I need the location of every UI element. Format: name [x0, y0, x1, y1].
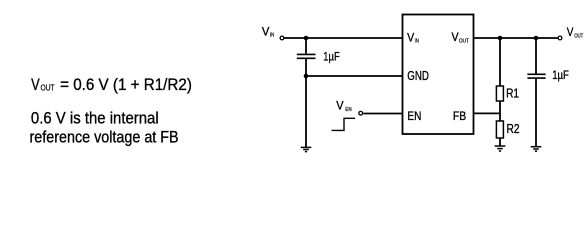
svg-text:V: V	[262, 25, 270, 38]
svg-text:OUT: OUT	[574, 33, 583, 39]
node VIN input terminal circle	[280, 36, 284, 40]
svg-text:IN: IN	[415, 38, 419, 44]
node VIN input terminal label	[262, 25, 274, 38]
wire C2 top lead	[535, 38, 537, 74]
resistor R1 body	[496, 86, 503, 101]
svg-text:0.6 V is the internal: 0.6 V is the internal	[31, 110, 159, 128]
wire GND pin to junction	[306, 75, 403, 77]
pin label VIN	[407, 31, 419, 45]
svg-text:1µF: 1µF	[323, 49, 340, 63]
wire C1 top lead	[305, 38, 307, 54]
capacitor C2 1uF plates	[527, 74, 545, 78]
ground symbol left	[301, 147, 312, 151]
node VOUT output terminal circle	[558, 36, 562, 40]
svg-text:OUT: OUT	[41, 83, 55, 92]
svg-text:FB: FB	[453, 109, 466, 123]
junction VOUT/R1	[498, 36, 503, 41]
junction C1/GND wire	[304, 74, 309, 79]
wire R1 top lead	[499, 38, 501, 86]
svg-text:V: V	[31, 76, 40, 94]
junction VIN/C1	[304, 36, 309, 41]
capacitor C1 1uF plates	[297, 54, 316, 58]
svg-text:= 0.6 V (1 + R1/R2): = 0.6 V (1 + R1/R2)	[60, 76, 192, 94]
svg-text:V: V	[336, 100, 344, 113]
svg-text:OUT: OUT	[459, 38, 470, 44]
wire C2 bottom lead	[535, 79, 537, 147]
wire U1 VOUT pin to output terminal	[474, 37, 558, 39]
formula Vout = 0.6 V (1 + R1/R2)	[31, 76, 192, 94]
node VEN enable source label	[336, 100, 351, 113]
svg-text:IN: IN	[270, 32, 274, 38]
svg-text:R1: R1	[506, 86, 519, 100]
step waveform symbol VEN	[332, 118, 356, 130]
wire VIN terminal to U1 VIN pin	[284, 37, 402, 39]
node VEN terminal circle	[359, 111, 363, 115]
svg-text:reference voltage at FB: reference voltage at FB	[30, 128, 179, 146]
svg-text:V: V	[567, 26, 574, 39]
junction VOUT/C2	[534, 36, 539, 41]
wire C1 bottom lead	[305, 59, 307, 76]
wire R1 bottom to R2 top	[499, 101, 501, 121]
pin label VOUT	[452, 30, 470, 44]
svg-text:EN: EN	[407, 109, 421, 123]
svg-text:EN: EN	[345, 107, 351, 113]
wire VEN terminal to U1 EN pin	[363, 113, 402, 115]
svg-text:R2: R2	[507, 122, 520, 136]
wire junction down to ground	[305, 76, 307, 147]
svg-text:GND: GND	[407, 68, 429, 83]
node VOUT output terminal label	[567, 26, 584, 39]
wire FB pin to divider	[474, 112, 501, 114]
wire R2 bottom lead	[499, 138, 501, 146]
resistor R2 body	[496, 121, 503, 138]
op-amp U1 regulator box	[403, 15, 474, 135]
svg-text:1µF: 1µF	[552, 68, 569, 82]
ground symbol under C2	[531, 147, 542, 152]
ground symbol under R2	[495, 146, 506, 151]
